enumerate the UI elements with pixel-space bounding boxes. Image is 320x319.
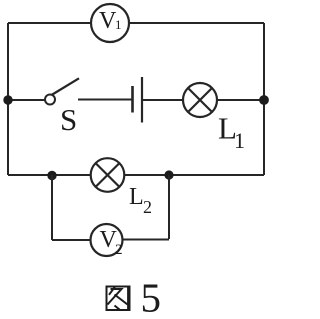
- svg-text:L: L: [129, 184, 144, 210]
- wire left vertical: [7, 23, 9, 175]
- wire from left node to switch: [8, 99, 45, 101]
- svg-text:1: 1: [234, 128, 245, 153]
- node lower-right (V2 branch): [164, 170, 173, 179]
- battery cell: [133, 77, 143, 123]
- svg-text:1: 1: [115, 17, 122, 32]
- voltmeter V2: [91, 224, 123, 258]
- wire V2 branch bottom right: [122, 239, 169, 241]
- svg-text:5: 5: [141, 275, 162, 319]
- wire bottom of main loop: [8, 174, 264, 176]
- label L1: [218, 111, 245, 154]
- caption: hand-drawn hanzi 图 (box radical): [107, 286, 130, 311]
- svg-text:2: 2: [143, 197, 152, 217]
- node right (junction of L1 branch): [259, 95, 269, 105]
- wire lamp L1 to right node: [217, 99, 264, 101]
- wire switch to battery: [78, 99, 132, 101]
- switch S: [45, 78, 79, 104]
- wire V2 branch bottom left: [52, 239, 91, 241]
- label L2: [129, 184, 152, 217]
- lamp L1: [183, 83, 217, 117]
- svg-text:2: 2: [115, 242, 123, 258]
- wire V2 branch left vertical: [51, 175, 53, 240]
- node lower-left (V2 branch): [47, 171, 56, 180]
- voltmeter V1: [91, 4, 129, 42]
- node left (junction of switch branch): [3, 95, 12, 104]
- lamp L2: [91, 158, 125, 192]
- wire V2 branch right vertical: [168, 175, 170, 239]
- wire battery to lamp L1: [143, 99, 184, 101]
- svg-text:S: S: [60, 102, 77, 137]
- wire right vertical: [263, 23, 265, 175]
- wire top: [8, 22, 264, 24]
